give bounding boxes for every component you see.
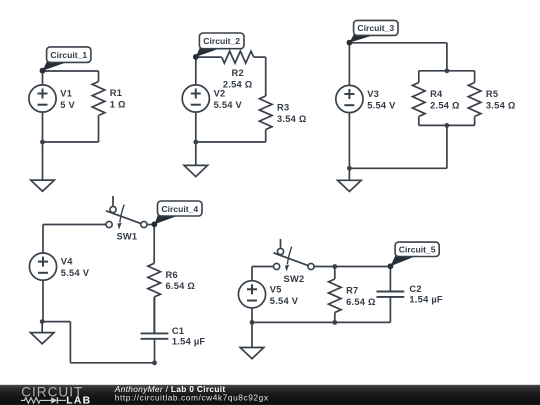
svg-text:R7: R7 xyxy=(346,285,358,295)
wire V3 top lead xyxy=(348,43,350,86)
svg-text:Circuit_3: Circuit_3 xyxy=(357,23,394,33)
label V2 value xyxy=(214,89,243,110)
label R7 value xyxy=(346,285,376,306)
svg-text:3.54 Ω: 3.54 Ω xyxy=(277,114,307,124)
resistor R1 xyxy=(92,71,105,142)
wire circuit4 to ground node xyxy=(42,321,70,323)
node label Circuit_3 xyxy=(347,20,399,45)
svg-text:1.54 µF: 1.54 µF xyxy=(409,295,443,305)
switch SW1 xyxy=(106,196,147,230)
svg-text:V4: V4 xyxy=(61,257,73,267)
svg-text:Circuit_4: Circuit_4 xyxy=(161,204,198,214)
label V1 value xyxy=(60,89,75,110)
ground xyxy=(240,322,264,358)
label R3 value xyxy=(277,103,307,124)
wire V2 top lead xyxy=(195,57,197,85)
wire switch SW1 to node xyxy=(147,224,154,226)
ground xyxy=(338,168,362,191)
svg-text:R2: R2 xyxy=(232,68,244,78)
node junction circuit4 ground xyxy=(40,319,45,324)
node junction R7 top xyxy=(332,264,337,269)
label C1 value xyxy=(172,326,206,346)
ground xyxy=(31,142,55,191)
wire V2 bottom lead xyxy=(195,112,197,142)
wire circuit3 top xyxy=(349,42,447,44)
logo resistor squiggle and diode xyxy=(21,398,51,404)
node junction circuit2 bottom xyxy=(193,140,198,145)
svg-text:5.54 V: 5.54 V xyxy=(61,268,90,278)
svg-text:V5: V5 xyxy=(270,284,282,294)
wire V5 bottom lead xyxy=(251,308,253,323)
resistor R6 xyxy=(148,225,161,334)
wire circuit5 bottom xyxy=(252,321,390,323)
label C2 value xyxy=(409,284,443,304)
svg-text:R1: R1 xyxy=(110,88,122,98)
svg-text:6.54 Ω: 6.54 Ω xyxy=(166,281,196,291)
svg-text:5.54 V: 5.54 V xyxy=(367,101,396,111)
wire V3 bottom lead xyxy=(348,113,350,169)
svg-text:5.54 V: 5.54 V xyxy=(214,100,243,110)
wire circuit1 top xyxy=(43,70,99,72)
resistor R3 xyxy=(259,57,272,142)
svg-text:Circuit_1: Circuit_1 xyxy=(50,50,87,60)
wire parallel bottom bar xyxy=(419,124,475,126)
svg-text:R6: R6 xyxy=(166,270,178,280)
svg-text:C1: C1 xyxy=(172,326,184,336)
label R1 value xyxy=(110,88,126,109)
node junction capacitor C1 bottom xyxy=(152,360,157,365)
wire V1 top lead xyxy=(42,71,44,85)
wire circuit4 top left xyxy=(43,224,106,226)
node junction parallel bottom xyxy=(445,123,450,128)
ground xyxy=(184,142,208,177)
svg-text:1.54 µF: 1.54 µF xyxy=(172,337,206,347)
voltage source V1 xyxy=(29,85,56,112)
resistor R7 xyxy=(329,267,342,323)
svg-text:2.54 Ω: 2.54 Ω xyxy=(223,80,253,90)
wire circuit1 bottom xyxy=(43,141,99,143)
label R2 value xyxy=(223,68,253,89)
label V5 value xyxy=(270,284,299,305)
node junction V5 bottom xyxy=(250,320,255,325)
label V3 value xyxy=(367,89,396,110)
voltage source V2 xyxy=(182,85,209,112)
svg-text:C2: C2 xyxy=(409,284,421,294)
node label Circuit_5 xyxy=(388,242,440,269)
wire circuit3 right down xyxy=(446,43,448,71)
voltage source V4 xyxy=(29,253,56,280)
voltage source V5 xyxy=(238,281,265,308)
node label Circuit_2 xyxy=(193,33,244,60)
svg-text:3.54 Ω: 3.54 Ω xyxy=(486,101,516,111)
svg-text:R5: R5 xyxy=(486,89,498,99)
resistor R2 xyxy=(222,51,266,63)
wire V1 bottom lead xyxy=(42,112,44,142)
wire V4 bottom lead xyxy=(42,280,44,322)
voltage source V3 xyxy=(336,85,363,112)
svg-text:6.54 Ω: 6.54 Ω xyxy=(346,297,376,307)
node label Circuit_1 xyxy=(40,47,91,74)
node junction circuit1 bottom xyxy=(40,140,45,145)
wire switch SW2 to capacitor C2 xyxy=(314,266,390,268)
svg-text:5.54 V: 5.54 V xyxy=(270,296,299,306)
svg-text:Circuit_2: Circuit_2 xyxy=(203,36,240,46)
resistor R4 xyxy=(413,71,426,126)
wire parallel top bar xyxy=(419,70,475,72)
svg-text:V2: V2 xyxy=(214,89,226,99)
node label Circuit_4 xyxy=(152,201,203,227)
node junction circuit3 bottom xyxy=(347,166,352,171)
resistor R5 xyxy=(468,71,481,126)
svg-text:5 V: 5 V xyxy=(60,100,75,110)
ground xyxy=(30,322,54,344)
capacitor C2 xyxy=(377,267,405,323)
label V4 value xyxy=(61,257,90,278)
svg-text:V1: V1 xyxy=(60,89,72,99)
svg-text:R3: R3 xyxy=(277,103,289,113)
switch SW2 xyxy=(274,239,315,272)
node junction parallel top xyxy=(445,68,450,73)
svg-text:SW2: SW2 xyxy=(284,274,305,284)
label R4 value xyxy=(430,89,460,110)
wire circuit2 bottom xyxy=(196,141,266,143)
wire V5 top lead xyxy=(251,267,253,281)
footer bar xyxy=(0,385,540,405)
wire circuit3 middle down xyxy=(446,125,448,168)
node junction R7 bottom xyxy=(332,320,337,325)
wire circuit4 bottom xyxy=(70,362,154,364)
wire V4 top lead xyxy=(42,225,44,254)
svg-text:Circuit_5: Circuit_5 xyxy=(399,245,436,255)
label R6 value xyxy=(166,270,196,291)
svg-text:V3: V3 xyxy=(367,89,379,99)
svg-text:http://circuitlab.com/cw4k7qu8: http://circuitlab.com/cw4k7qu8c92gx xyxy=(115,392,269,402)
capacitor C1 xyxy=(141,297,169,363)
label R5 value xyxy=(486,89,516,110)
svg-text:2.54 Ω: 2.54 Ω xyxy=(430,101,460,111)
svg-text:SW1: SW1 xyxy=(116,232,137,242)
wire circuit2 top left xyxy=(196,56,222,58)
svg-text:LAB: LAB xyxy=(66,395,91,405)
wire circuit5 top left xyxy=(252,266,274,268)
svg-text:R4: R4 xyxy=(430,89,443,99)
svg-text:1 Ω: 1 Ω xyxy=(110,100,126,110)
wire circuit3 bottom xyxy=(349,167,447,169)
wire circuit4 left riser xyxy=(69,322,71,363)
